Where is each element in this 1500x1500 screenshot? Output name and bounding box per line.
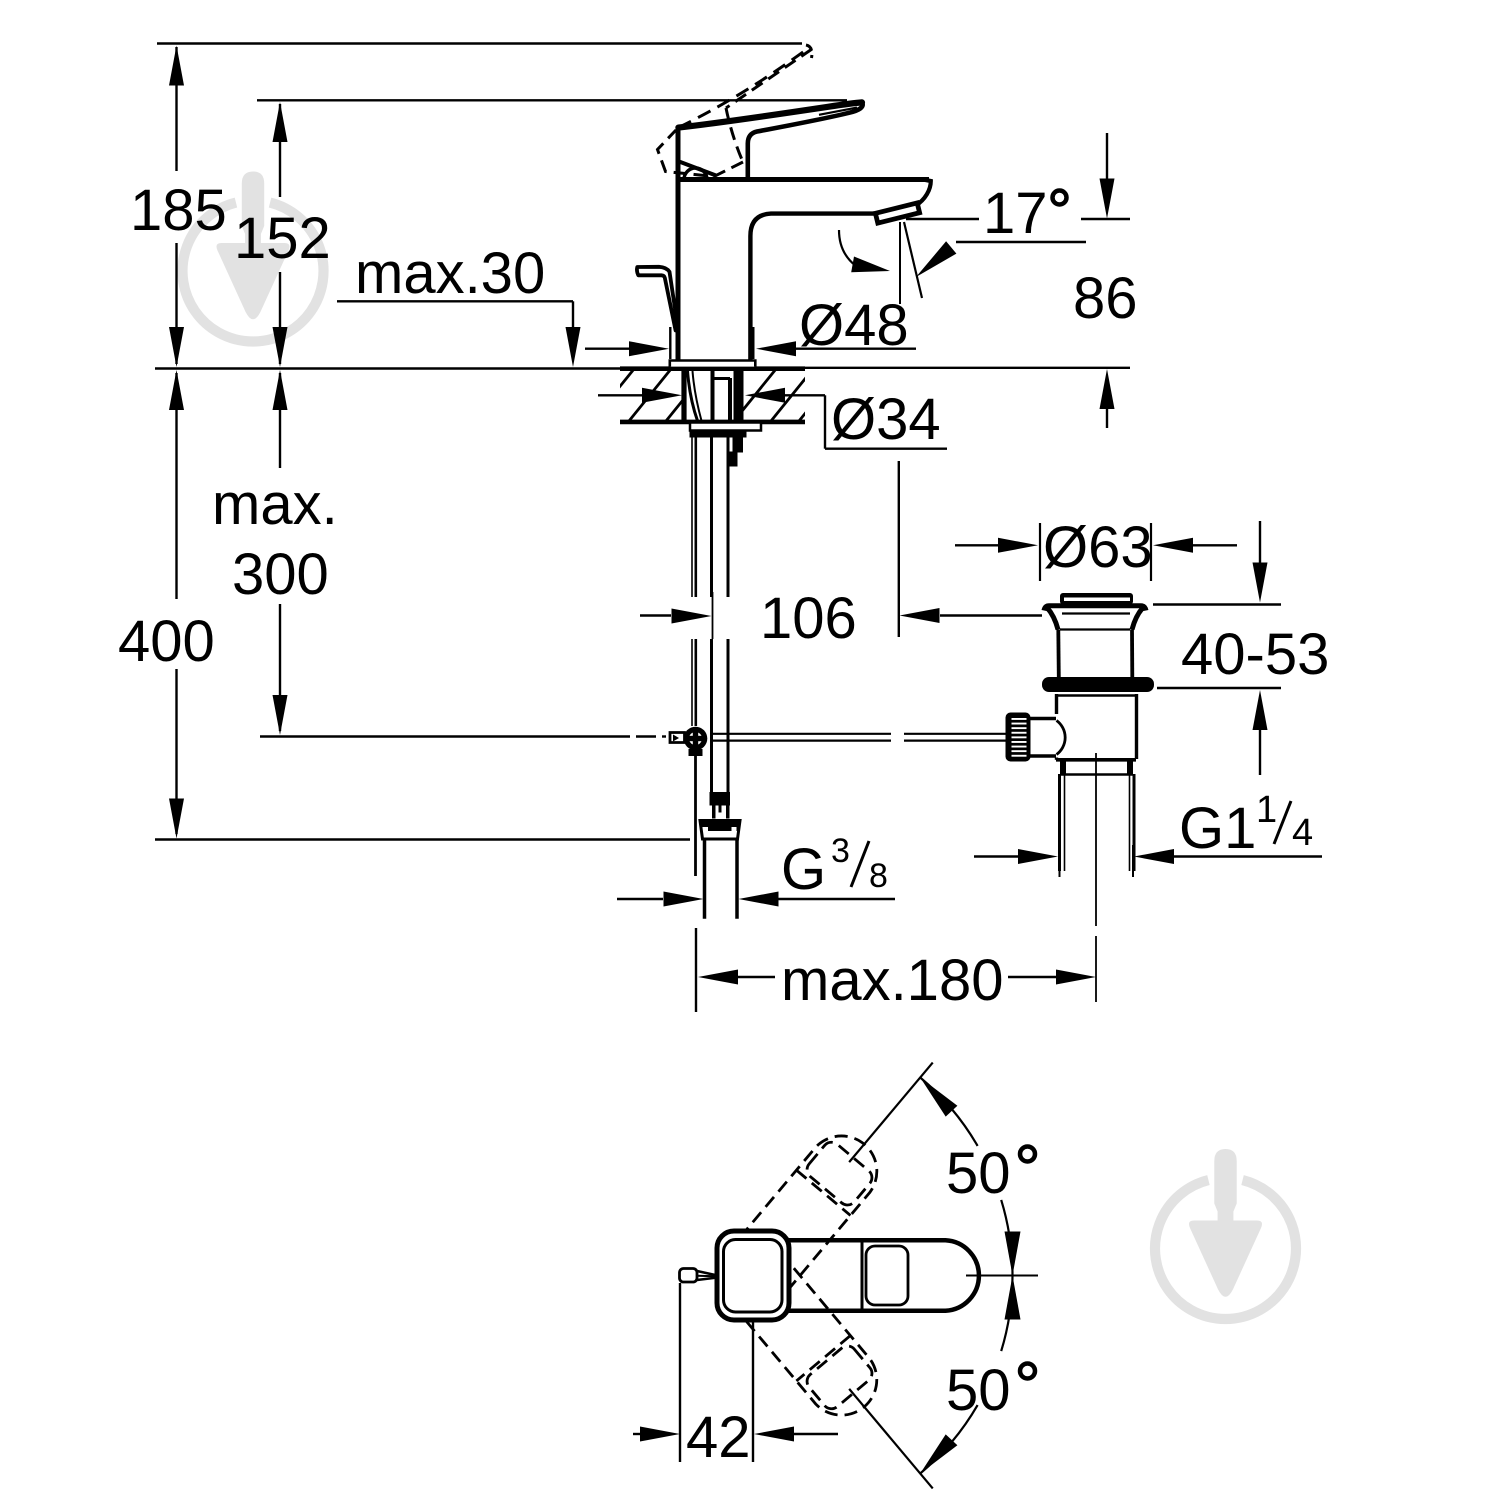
svg-text:max.30: max.30 — [355, 241, 545, 306]
svg-text:50: 50 — [946, 1141, 1011, 1206]
svg-text:4: 4 — [1292, 812, 1313, 854]
svg-text:G: G — [781, 837, 826, 902]
svg-text:42: 42 — [686, 1405, 751, 1470]
svg-text:8: 8 — [869, 857, 888, 895]
svg-text:400: 400 — [118, 609, 215, 674]
svg-text:300: 300 — [232, 542, 329, 607]
svg-text:50: 50 — [946, 1358, 1011, 1423]
svg-text:17: 17 — [983, 181, 1048, 246]
svg-text:Ø63: Ø63 — [1043, 515, 1153, 580]
svg-text:3: 3 — [831, 832, 850, 870]
svg-text:106: 106 — [760, 586, 857, 651]
svg-text:Ø34: Ø34 — [831, 387, 941, 452]
svg-text:152: 152 — [234, 206, 331, 271]
svg-text:G1: G1 — [1179, 796, 1256, 861]
svg-text:40-53: 40-53 — [1181, 622, 1329, 687]
svg-text:1: 1 — [1256, 789, 1277, 831]
svg-text:max.: max. — [212, 472, 338, 537]
svg-text:86: 86 — [1073, 266, 1138, 331]
svg-text:max.180: max.180 — [781, 948, 1003, 1013]
svg-text:185: 185 — [130, 178, 227, 243]
